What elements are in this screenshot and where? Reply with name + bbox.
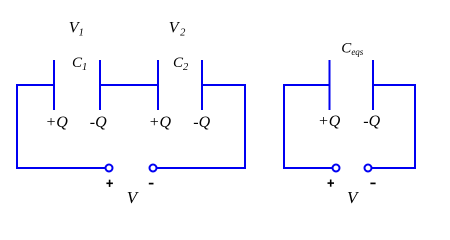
label Ceqs (equivalent capacitance) <box>341 41 364 58</box>
capacitor Ceqs right plate <box>372 60 374 110</box>
label - at right circuit negative terminal <box>370 182 375 184</box>
svg-text:+Q: +Q <box>46 114 69 131</box>
label -Q on C1 right plate <box>90 114 107 131</box>
label + at left circuit positive terminal <box>106 180 113 187</box>
svg-text:C2: C2 <box>173 55 189 73</box>
wire: left circuit, bottom-right horizontal <box>157 167 246 169</box>
wire: left circuit, left vertical <box>16 84 18 169</box>
svg-text:V2: V2 <box>169 20 186 39</box>
svg-text:-Q: -Q <box>90 114 107 131</box>
svg-text:V: V <box>127 188 140 207</box>
label -Q on Ceqs right plate <box>363 113 380 130</box>
svg-text:C1: C1 <box>72 55 87 73</box>
label + at right circuit positive terminal <box>328 180 335 187</box>
wire: right circuit, top-left horizontal <box>283 84 330 86</box>
wire: right circuit, left vertical <box>283 84 285 169</box>
capacitor Ceqs left plate <box>329 60 331 110</box>
svg-text:+Q: +Q <box>149 114 172 131</box>
label V1 (voltage across C1) <box>69 20 84 39</box>
capacitor C2 right plate <box>201 60 203 110</box>
wire: left circuit, top-left horizontal to C1 <box>16 84 55 86</box>
wire: right circuit, right vertical <box>414 84 416 169</box>
wire: left circuit, top-right horizontal <box>201 84 246 86</box>
label V (battery voltage, left circuit) <box>127 188 140 207</box>
capacitor C1 right plate <box>99 60 101 110</box>
svg-text:+Q: +Q <box>318 113 341 130</box>
svg-text:Ceqs: Ceqs <box>341 41 364 58</box>
wire: right circuit, bottom-left horizontal <box>283 167 332 169</box>
terminal: left circuit positive (open circle) <box>106 165 113 172</box>
capacitor C2 left plate <box>157 60 159 110</box>
svg-text:V: V <box>347 188 360 207</box>
wire: right circuit, top-right horizontal <box>372 84 416 86</box>
label V (battery voltage, right circuit) <box>347 188 360 207</box>
label +Q on C1 left plate <box>46 114 69 131</box>
terminal: right circuit negative (open circle) <box>365 165 372 172</box>
wire: left circuit, right vertical <box>244 84 246 169</box>
svg-text:V1: V1 <box>69 20 84 39</box>
wire: left circuit, bottom-left horizontal <box>16 167 105 169</box>
wire: right circuit, bottom-right horizontal <box>372 167 416 169</box>
label - at left circuit negative terminal <box>149 183 154 185</box>
label +Q on C2 left plate <box>149 114 172 131</box>
terminal: right circuit positive (open circle) <box>333 165 340 172</box>
svg-text:-Q: -Q <box>193 114 210 131</box>
svg-text:-Q: -Q <box>363 113 380 130</box>
label -Q on C2 right plate <box>193 114 210 131</box>
label V2 (voltage across C2) <box>169 20 186 39</box>
terminal: left circuit negative (open circle) <box>150 165 157 172</box>
label +Q on Ceqs left plate <box>318 113 341 130</box>
label C1 <box>72 55 87 73</box>
capacitor C1 left plate <box>53 60 55 110</box>
label C2 <box>173 55 189 73</box>
wire: between C1 and C2 <box>99 84 158 86</box>
